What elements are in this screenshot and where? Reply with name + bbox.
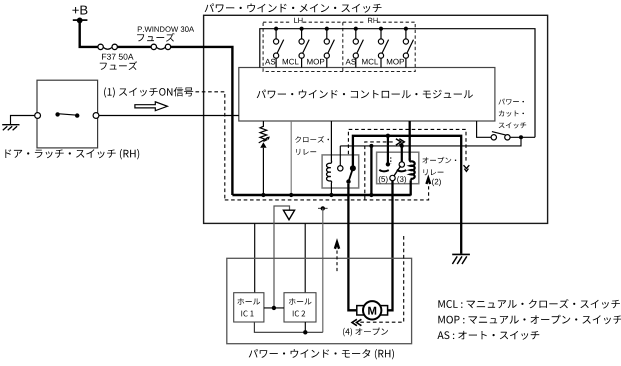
wire open relay common to motor [387,181,392,311]
wire ground to door latch [11,116,35,125]
wire fuse to main switch down to bottom bus [171,47,233,195]
motor M1 brushes [357,306,364,315]
label: MCL [283,59,299,65]
label: hall IC 1 l1 [237,298,260,304]
label: fuse 2 fyuzu [137,33,174,42]
hall IC 2 box [284,293,316,322]
wire power-cut line to relays [340,137,521,146]
pin (3) [397,176,406,184]
wire open relay coil to bus [410,180,412,195]
switch MOP RH [404,27,408,31]
switch ON signal open arrow [135,102,168,111]
label: MOP [387,59,404,65]
label: power window main switch [205,3,382,12]
control module box U1 [239,68,495,122]
fuse F37 50A [98,44,103,49]
switch AS LH [274,27,278,31]
label: fuse 1 fyuzu [100,61,137,70]
power cut switch contacts [491,135,496,140]
label: AS [265,59,275,65]
wire open relay contact 3 to power-cut line [401,146,403,162]
wire open relay contact 5 to ground line [387,136,389,164]
signal (2) arrowhead up [426,176,431,184]
power window motor (RH) box [227,258,412,343]
label: close relay line2 [296,149,316,155]
wire main switch to hall IC1 [254,223,256,292]
power window main switch box [204,15,548,223]
label: open relay [422,157,456,164]
signal (4) open dashed route [358,236,404,322]
close relay box K1 [322,155,359,188]
close relay coil L1 [327,161,332,183]
tap bar and wire to hall IC bottoms [318,207,328,209]
signal tap with open triangle [274,206,290,308]
label: open relay line2 [424,169,444,175]
switch MOP LH [325,27,329,31]
label: power cut switch l2 [499,110,524,116]
switch MCL RH [379,27,383,31]
label: power cut switch l1 [499,99,525,105]
wire module to bus (sense) [290,121,292,195]
wire close relay output to motor [348,184,356,310]
label: P.WINDOW 30A [138,26,194,32]
label: door latch switch (RH) [5,149,139,160]
label: MCL [362,59,378,65]
wire module to open relay coil (thick) [409,121,411,160]
open relay coil L2 [410,158,415,180]
label: hall IC 1 l2 [241,311,253,317]
dashed flow: signal to contact 3 [365,142,395,200]
dashed flow: close relay to ground [348,129,466,162]
label: signal (2) [432,179,441,187]
wire close relay coil to bus [330,183,332,195]
legend MCL [438,299,620,309]
wire +B feed [80,20,98,47]
open relay blade and common [393,166,401,178]
LH/RH switch group dashed box [263,22,415,71]
label: LH group [294,18,302,23]
ground (main) [452,253,470,255]
wire main switch to hall IC2 [304,223,306,292]
wire door latch to module [99,115,239,117]
wire between fuses [117,46,151,48]
wire hall IC1 to IC2 [264,307,284,309]
label: signal (4) open [343,328,388,337]
label: power window motor (RH) [249,349,394,359]
wire junction to bus (thick) [370,146,372,195]
dashed flow arrow up near motor [336,251,338,274]
dashed tick near contact 5 [390,157,392,164]
signal (1) dashed route [196,92,429,200]
label: hall IC 2 l1 [289,298,312,304]
arrow up into resistor [260,142,266,148]
label: power window control module [257,90,473,99]
door latch switch (RH) box [37,80,98,148]
wire module to close relay coil [330,121,332,161]
label: F37 50A [102,54,133,60]
hall IC 1 box [234,293,264,322]
battery terminal +B [73,19,88,21]
close relay NC contact from power-cut line [339,146,341,166]
legend MOP [438,315,621,324]
switch AS RH [354,27,358,31]
open relay box K2 [377,152,419,184]
label: hall IC 2 l2 [293,311,305,317]
wire hall IC2 bottom [304,322,306,332]
wire resistor to bus [262,148,264,195]
door latch switch contacts [35,113,41,119]
bottom bus wire [232,194,410,196]
wire close relay common to ground [353,136,461,254]
label: signal (1) switch ON [104,87,193,98]
pin (5) [379,176,388,184]
label: close relay [295,136,329,143]
label: AS [346,59,356,65]
close relay common and blade [350,165,356,171]
motor M1 [363,301,381,319]
label: +B supply [72,6,87,15]
label: motor M [368,307,376,315]
label: MOP [307,59,324,65]
wire module to power cut switch [477,121,492,137]
switch feed bus from module [260,29,535,138]
wire power cut switch to bus feed [510,136,535,138]
fuse P.WINDOW 30A [151,44,156,49]
legend AS [437,331,539,340]
label: power cut switch l3 [499,122,527,128]
open relay contact arcs [379,170,389,172]
label: RH group [368,18,378,23]
ground (door latch) [2,124,19,126]
node bus junctions [261,193,265,197]
resistor R (module output) [260,121,267,141]
switch MCL LH [300,27,304,31]
